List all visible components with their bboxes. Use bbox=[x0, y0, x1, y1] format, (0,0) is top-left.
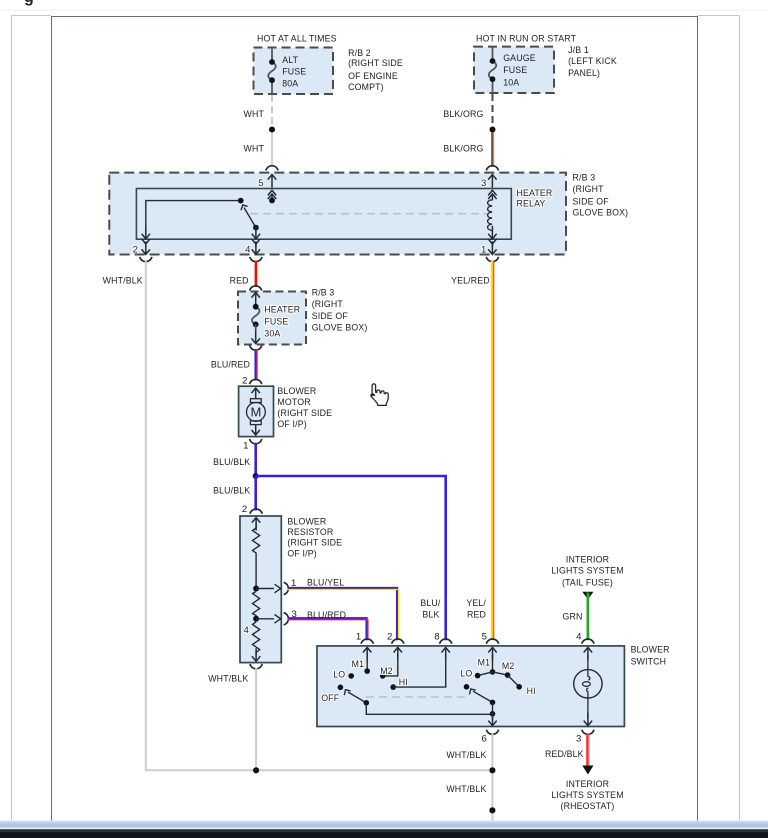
pin 4 boundary arrow bbox=[255, 244, 257, 247]
junction on WHT wire bbox=[269, 127, 275, 133]
fuse box R/B 2 (ALT FUSE) bbox=[254, 48, 334, 95]
resistor element lower bbox=[253, 622, 260, 656]
blower motor connector arc pin 1 bbox=[250, 439, 262, 444]
pin 2 chevron bbox=[142, 239, 150, 244]
svg-text:GLOVE BOX): GLOVE BOX) bbox=[573, 207, 629, 217]
svg-text:COMPT): COMPT) bbox=[348, 82, 384, 92]
svg-text:BLU/YEL: BLU/YEL bbox=[307, 578, 344, 588]
arrow to interior lights system rheostat bbox=[582, 766, 593, 775]
linkage dashed blower switch bbox=[366, 696, 466, 698]
svg-text:6: 6 bbox=[481, 734, 486, 745]
value label HEATER FUSE 30A bbox=[264, 304, 300, 338]
svg-text:BLU/: BLU/ bbox=[420, 598, 441, 608]
fuse ALT FUSE 80A bbox=[268, 48, 276, 95]
svg-text:M1: M1 bbox=[352, 659, 365, 669]
svg-text:BLK: BLK bbox=[422, 610, 439, 620]
svg-text:30A: 30A bbox=[264, 328, 280, 338]
pin 2 exit arrow bbox=[142, 226, 150, 239]
wire GRN to switch pin 4 bbox=[587, 593, 590, 641]
motor brush bottom bbox=[250, 421, 261, 425]
motor exit arrow bbox=[252, 425, 260, 435]
svg-text:YEL/: YEL/ bbox=[466, 598, 486, 608]
svg-text:5: 5 bbox=[482, 631, 487, 642]
svg-text:ALT: ALT bbox=[282, 55, 298, 65]
contact HI left with wire to pin 8 bbox=[390, 684, 396, 690]
svg-text:SWITCH: SWITCH bbox=[631, 657, 667, 667]
pin 4 connector arc bbox=[250, 257, 262, 262]
relay switch common line to pin 2 bbox=[146, 201, 241, 237]
wire YEL/RED relay pin 1 to blower switch pin 5 bbox=[492, 261, 494, 641]
svg-text:2: 2 bbox=[387, 631, 392, 642]
resistor entry arrow bbox=[252, 518, 260, 531]
connector arcs blower switch top bbox=[361, 639, 373, 644]
blower resistor connector arc pin 2 bbox=[250, 509, 262, 514]
svg-text:WHT/BLK: WHT/BLK bbox=[446, 784, 486, 794]
relay box R/B 3 HEATER RELAY outer dashed bbox=[109, 173, 566, 255]
heater fuse exit arrow bbox=[252, 331, 260, 344]
wire BLU/RED resistor pin 3 to switch pin 1 bbox=[288, 618, 368, 640]
wire WHT/BLK from relay pin 2 to bottom rail bbox=[146, 261, 489, 771]
svg-text:WHT/BLK: WHT/BLK bbox=[208, 674, 248, 684]
svg-text:HEATER: HEATER bbox=[264, 304, 300, 314]
pin 5 inner chevron and arrow bbox=[268, 190, 276, 195]
svg-text:2: 2 bbox=[242, 504, 247, 515]
svg-text:M1: M1 bbox=[478, 658, 491, 668]
motor entry arrow bbox=[252, 388, 260, 399]
label BLOWER MOTOR location bbox=[277, 386, 332, 429]
mouse cursor bbox=[371, 384, 388, 406]
junction lower bbox=[489, 807, 495, 813]
label J/B 1 location bbox=[568, 45, 617, 78]
label R/B 2 location bbox=[348, 48, 403, 92]
label INTERIOR LIGHTS SYSTEM (RHEOSTAT) bbox=[551, 779, 623, 811]
pin 5 entry arrow and common contact bbox=[488, 647, 496, 660]
pin 3 entry arrow bbox=[488, 175, 496, 188]
wire WHT to relay pin 5 bbox=[271, 133, 273, 167]
svg-text:GRN: GRN bbox=[563, 612, 583, 622]
pin 2 connector arc bbox=[140, 257, 152, 262]
arm to pin 6 junction bbox=[492, 702, 494, 713]
svg-text:SIDE OF: SIDE OF bbox=[312, 311, 349, 321]
wire BLU/RED heater fuse to blower motor bbox=[256, 349, 258, 380]
svg-text:BLOWER: BLOWER bbox=[277, 386, 316, 396]
fuse box R/B 3 (HEATER FUSE) bbox=[238, 292, 306, 345]
pin 3 inner chevron bbox=[488, 190, 496, 195]
pin 5 connector arc bbox=[266, 166, 278, 171]
pin 4 chevron bbox=[252, 239, 260, 244]
pin 3 connector arc bbox=[486, 166, 498, 171]
pin 2 entry arrow and M2 contact bbox=[394, 647, 402, 660]
blower switch S1 case bbox=[317, 646, 624, 727]
pin 4 entry arrow to lamp bbox=[584, 647, 592, 660]
svg-text:4: 4 bbox=[245, 244, 251, 255]
switch arm right section bbox=[473, 691, 493, 702]
blower motor connector arc pin 2 bbox=[250, 379, 262, 384]
svg-text:RED: RED bbox=[230, 275, 249, 285]
svg-text:SIDE OF: SIDE OF bbox=[573, 196, 610, 206]
svg-text:LIGHTS SYSTEM: LIGHTS SYSTEM bbox=[551, 566, 623, 576]
value label ALT FUSE 80A bbox=[282, 55, 306, 88]
svg-text:M2: M2 bbox=[502, 661, 515, 671]
label HEATER RELAY bbox=[517, 188, 553, 208]
resistor element upper bbox=[253, 528, 260, 589]
arm common line to pin 6 bbox=[366, 703, 492, 715]
svg-text:BLU/BLK: BLU/BLK bbox=[213, 457, 250, 467]
wire RED relay pin 4 to heater fuse bbox=[255, 261, 258, 287]
label BLOWER RESISTOR location bbox=[287, 517, 342, 559]
svg-text:5: 5 bbox=[258, 178, 263, 189]
svg-text:WHT: WHT bbox=[244, 109, 265, 119]
junction bottom rail bbox=[489, 767, 495, 773]
resistor element middle bbox=[253, 592, 260, 619]
svg-text:3: 3 bbox=[576, 734, 581, 745]
svg-text:1: 1 bbox=[243, 440, 248, 451]
svg-text:WHT/BLK: WHT/BLK bbox=[446, 750, 486, 760]
pin 1 entry arrow and M1 contact bbox=[363, 647, 371, 660]
pin 3 connector arc bbox=[582, 730, 594, 735]
pin 6 exit arrow bbox=[492, 714, 494, 720]
contact off right bbox=[464, 684, 470, 690]
svg-text:FUSE: FUSE bbox=[503, 65, 527, 75]
node resistor tap 1 bbox=[253, 586, 259, 592]
node resistor tap 3 bbox=[253, 616, 259, 622]
svg-text:3: 3 bbox=[481, 178, 486, 189]
wire BLK/ORG to relay pin 3 bbox=[492, 133, 493, 167]
pin 1 boundary arrow bbox=[491, 244, 493, 247]
svg-text:HOT AT ALL TIMES: HOT AT ALL TIMES bbox=[257, 33, 337, 43]
svg-text:(RIGHT SIDE: (RIGHT SIDE bbox=[287, 538, 342, 548]
node relay fixed contact bbox=[238, 198, 244, 204]
pin 1 connector arc bbox=[486, 257, 498, 262]
svg-text:(RIGHT SIDE: (RIGHT SIDE bbox=[277, 408, 332, 418]
wire RED/BLK switch pin 3 down bbox=[587, 733, 589, 765]
value label GAUGE FUSE 10A bbox=[503, 53, 536, 87]
label BLOWER SWITCH bbox=[631, 644, 670, 666]
svg-text:M: M bbox=[250, 405, 261, 420]
svg-text:2: 2 bbox=[133, 244, 138, 255]
wire BLK/ORG dashed from GAUGE fuse bbox=[492, 94, 494, 125]
svg-text:BLK/ORG: BLK/ORG bbox=[443, 109, 483, 119]
bottom dark taskbar bbox=[0, 829, 768, 838]
svg-text:HOT IN RUN OR START: HOT IN RUN OR START bbox=[476, 33, 577, 43]
junction on BLK/ORG wire bbox=[490, 127, 496, 133]
pin 1 connector arc resistor bbox=[284, 582, 289, 594]
svg-text:LO: LO bbox=[460, 668, 472, 678]
svg-text:BLOWER: BLOWER bbox=[631, 644, 670, 654]
svg-text:g: g bbox=[24, 0, 34, 6]
svg-text:(RHEOSTAT): (RHEOSTAT) bbox=[561, 801, 615, 811]
motor brush top bbox=[250, 399, 261, 403]
pin 3 exit arrow bbox=[584, 713, 592, 726]
svg-text:GLOVE BOX): GLOVE BOX) bbox=[312, 323, 368, 333]
relay U1 inner case bbox=[136, 189, 511, 240]
pin 2 boundary arrow bbox=[145, 244, 147, 247]
junction resistor ground bbox=[253, 767, 259, 773]
contact LO right with link bbox=[478, 672, 493, 676]
svg-text:BLU/RED: BLU/RED bbox=[211, 360, 250, 370]
lamp ILL bbox=[574, 670, 602, 698]
junction BLU/BLK bbox=[253, 473, 259, 479]
pin 8 entry arrow bbox=[442, 647, 450, 660]
label YEL/ RED at switch pin 5 bbox=[466, 598, 486, 620]
label INTERIOR LIGHTS SYSTEM (TAIL FUSE) bbox=[551, 555, 623, 588]
blower motor M1 case bbox=[239, 386, 274, 436]
contact M2 right with link bbox=[493, 672, 508, 675]
coil to pin 1 arrow bbox=[488, 226, 496, 239]
label R/B 3 location bbox=[312, 288, 368, 333]
svg-text:WHT: WHT bbox=[244, 144, 265, 154]
svg-text:FUSE: FUSE bbox=[282, 67, 306, 77]
svg-text:RED: RED bbox=[467, 610, 486, 620]
fuse GAUGE FUSE 10A bbox=[489, 47, 497, 93]
svg-text:GAUGE: GAUGE bbox=[503, 53, 536, 63]
fuse box J/B 1 (GAUGE FUSE) bbox=[474, 47, 554, 93]
svg-text:WHT/BLK: WHT/BLK bbox=[103, 275, 143, 285]
heater fuse connector arc top bbox=[250, 286, 262, 291]
contact LO left bbox=[348, 673, 354, 679]
label R/B 3 location bbox=[573, 173, 629, 218]
wire WHT/BLK resistor pin 4 to bottom rail bbox=[255, 668, 257, 770]
label BLU/ BLK at switch pin 8 bbox=[420, 598, 441, 620]
svg-text:LO: LO bbox=[333, 670, 345, 680]
mechanical linkage dashed bbox=[250, 213, 487, 215]
svg-text:INTERIOR: INTERIOR bbox=[566, 779, 609, 789]
svg-text:R/B 3: R/B 3 bbox=[312, 288, 335, 298]
svg-text:80A: 80A bbox=[282, 78, 298, 88]
svg-text:(TAIL FUSE): (TAIL FUSE) bbox=[562, 578, 613, 588]
svg-text:OF I/P): OF I/P) bbox=[287, 548, 316, 558]
svg-text:OFF: OFF bbox=[321, 693, 340, 703]
arrow from interior lights system bbox=[582, 592, 593, 599]
svg-text:HEATER: HEATER bbox=[517, 188, 553, 198]
svg-text:(LEFT KICK: (LEFT KICK bbox=[568, 56, 617, 66]
pin 6 connector arc bbox=[486, 730, 498, 735]
wire BLU/BLK junction to blower switch pin 8 bbox=[256, 476, 446, 640]
svg-text:BLU/BLK: BLU/BLK bbox=[213, 485, 250, 495]
svg-text:1: 1 bbox=[356, 631, 361, 642]
node relay arm pivot bbox=[253, 225, 259, 231]
svg-text:(RIGHT: (RIGHT bbox=[312, 299, 344, 309]
svg-text:RED/BLK: RED/BLK bbox=[545, 749, 584, 759]
relay movable arm bbox=[244, 208, 256, 228]
blower resistor R1 case bbox=[240, 516, 281, 663]
svg-text:8: 8 bbox=[434, 631, 439, 642]
pin 3 connector arc resistor bbox=[284, 613, 289, 625]
svg-text:YEL/RED: YEL/RED bbox=[451, 275, 490, 285]
svg-text:OF ENGINE: OF ENGINE bbox=[348, 71, 398, 81]
fuse HEATER FUSE 30A bbox=[252, 305, 260, 324]
wire BLU/BLK motor pin 1 down to junction bbox=[254, 443, 257, 476]
resistor tap 1 arrow to pin 1 bbox=[256, 588, 274, 590]
wire WHT/BLK switch pin 6 down bbox=[491, 734, 493, 821]
svg-text:RESISTOR: RESISTOR bbox=[287, 527, 333, 537]
svg-text:BLK/ORG: BLK/ORG bbox=[443, 144, 483, 154]
svg-text:4: 4 bbox=[244, 625, 250, 636]
svg-text:LIGHTS SYSTEM: LIGHTS SYSTEM bbox=[551, 790, 623, 800]
svg-text:1: 1 bbox=[481, 244, 486, 255]
bottom scrollbar blue band bbox=[0, 821, 768, 828]
switch arm left section bbox=[348, 692, 366, 703]
svg-text:R/B 3: R/B 3 bbox=[573, 173, 596, 183]
pin 4 connector arc resistor bbox=[250, 664, 262, 669]
resistor tap 3 arrow to pin 3 bbox=[256, 618, 274, 620]
svg-text:PANEL): PANEL) bbox=[568, 68, 600, 78]
svg-text:HI: HI bbox=[399, 677, 408, 687]
heater fuse connector arc bottom bbox=[250, 345, 262, 350]
svg-text:OF I/P): OF I/P) bbox=[277, 419, 306, 429]
heater fuse entry arrow bbox=[252, 293, 260, 306]
contact OFF bbox=[338, 685, 344, 691]
relay coil bbox=[488, 193, 493, 232]
wire BLU/YEL resistor pin 1 to switch pin 2 bbox=[288, 588, 399, 640]
motor armature circle bbox=[247, 403, 266, 422]
svg-text:2: 2 bbox=[242, 375, 247, 386]
svg-text:MOTOR: MOTOR bbox=[277, 397, 310, 407]
svg-text:HI: HI bbox=[527, 686, 536, 696]
resistor exit arrow bbox=[252, 648, 260, 661]
pin 4 exit arrow bbox=[255, 228, 257, 231]
svg-text:M2: M2 bbox=[380, 666, 393, 676]
svg-text:RELAY: RELAY bbox=[517, 199, 546, 209]
svg-text:FUSE: FUSE bbox=[264, 316, 288, 326]
wire BLU/BLK junction to resistor pin 2 bbox=[254, 476, 257, 510]
wire WHT dashed from ALT fuse bbox=[271, 95, 273, 125]
node pin5 contact bbox=[269, 198, 275, 204]
svg-text:J/B 1: J/B 1 bbox=[568, 45, 589, 55]
svg-text:(RIGHT SIDE: (RIGHT SIDE bbox=[348, 58, 403, 68]
svg-text:4: 4 bbox=[576, 631, 582, 642]
pin 1 exit arrow bbox=[488, 239, 496, 244]
svg-text:10A: 10A bbox=[503, 77, 519, 87]
pin 5 entry arrow bbox=[268, 175, 276, 188]
svg-text:BLOWER: BLOWER bbox=[287, 517, 326, 527]
svg-text:INTERIOR: INTERIOR bbox=[566, 555, 609, 565]
svg-text:(RIGHT: (RIGHT bbox=[573, 184, 605, 194]
svg-text:BLU/RED: BLU/RED bbox=[307, 610, 346, 620]
svg-text:R/B 2: R/B 2 bbox=[348, 48, 371, 58]
contact HI right with link bbox=[508, 675, 520, 687]
